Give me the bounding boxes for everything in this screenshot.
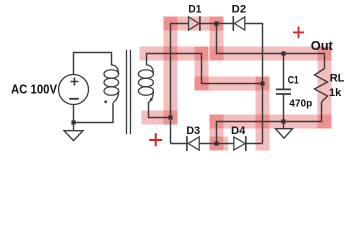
AC source plus sign (70, 78, 78, 86)
wire plus node to output and RL top (217, 24, 325, 69)
transformer T1 core lines (127, 50, 131, 134)
transformer T1 primary winding entry (112, 65, 119, 74)
red plus marker near output (293, 27, 304, 39)
wire D4 cathode right (246, 143, 263, 145)
transformer T1 primary loop 2 (104, 78, 119, 87)
svg-text:RL: RL (330, 73, 345, 85)
transformer T1 secondary winding entry (147, 65, 154, 74)
transformer T1 secondary exit (149, 91, 154, 103)
resistor RL zigzag (315, 69, 328, 103)
wire D4 stub highlight (217, 137, 222, 151)
wire AC1 vertical (171, 24, 189, 144)
wire D3 anode to minus junction (199, 143, 216, 145)
wire rail-corner vertical highlight (210, 122, 224, 144)
wire AC top (74, 53, 112, 75)
svg-text:D2: D2 (232, 4, 246, 16)
wire D3 cathode left (171, 143, 187, 145)
AC source V1 circle (59, 75, 89, 105)
svg-text:C1: C1 (288, 75, 299, 87)
wire output row highlight (217, 47, 325, 61)
transformer T1 secondary phase dot (150, 98, 153, 101)
svg-text:Out: Out (311, 39, 334, 53)
transformer T1 primary loop 3 (104, 87, 119, 96)
svg-text:D4: D4 (231, 125, 246, 137)
ground GND1 (64, 123, 83, 141)
transformer T1 primary exit (113, 91, 119, 103)
ground GND2 (276, 122, 293, 139)
svg-text:D1: D1 (188, 4, 201, 16)
svg-text:470p: 470p (289, 98, 312, 110)
wire minus junction to D4 anode (217, 143, 234, 145)
wire D1 cathode to plus junction (200, 23, 233, 25)
node plus junction (214, 21, 218, 25)
capacitor C1 plates (276, 89, 291, 94)
highlighted current path (translucent red bands) (147, 24, 325, 144)
capacitor C1 leads (283, 54, 285, 122)
node AC-bottom junction (71, 120, 75, 124)
wire jog horizontal highlight (202, 77, 263, 91)
transformer T1 secondary loop 2 (138, 78, 153, 87)
node C1 bottom junction (281, 119, 285, 123)
wire secondary-bottom highlight (149, 111, 171, 125)
wire secondary-top highlight (147, 47, 202, 61)
wire secondary top (147, 54, 263, 84)
transformer T1 primary loop 1 (104, 70, 119, 79)
wire secondary bottom (149, 102, 171, 118)
transformer T1 primary phase dot (104, 100, 107, 103)
AC source minus sign (69, 98, 79, 100)
node AC2 junction (260, 81, 264, 85)
red plus marker near secondary bottom (149, 133, 162, 146)
diode D2 symbol (233, 16, 245, 31)
wire D2 anode to AC2 corner (245, 24, 263, 144)
wire AC1 vertical highlight (164, 24, 178, 118)
svg-text:1k: 1k (329, 87, 342, 99)
wire jog vertical highlight (195, 54, 209, 84)
transformer T1 secondary loop 3 (138, 87, 153, 96)
svg-text:AC 100V: AC 100V (11, 81, 57, 96)
diode D3 symbol (187, 136, 199, 151)
wire AC2 vertical highlight (256, 84, 270, 144)
node C1 top junction (281, 51, 285, 55)
wire top row D1 highlight (171, 17, 217, 31)
node secondary-bottom junction (168, 115, 172, 119)
wire AC bottom (74, 103, 114, 123)
node minus junction (214, 141, 218, 145)
wire RL branch highlight (318, 54, 332, 122)
wire plus-node vertical highlight (210, 24, 224, 54)
wire bottom rail (217, 102, 322, 144)
diode D4 symbol (234, 136, 246, 151)
svg-text:D3: D3 (186, 125, 200, 137)
transformer T1 secondary loop 1 (138, 70, 153, 79)
diode D1 symbol (189, 16, 200, 31)
wire bottom rail highlight (217, 115, 325, 129)
